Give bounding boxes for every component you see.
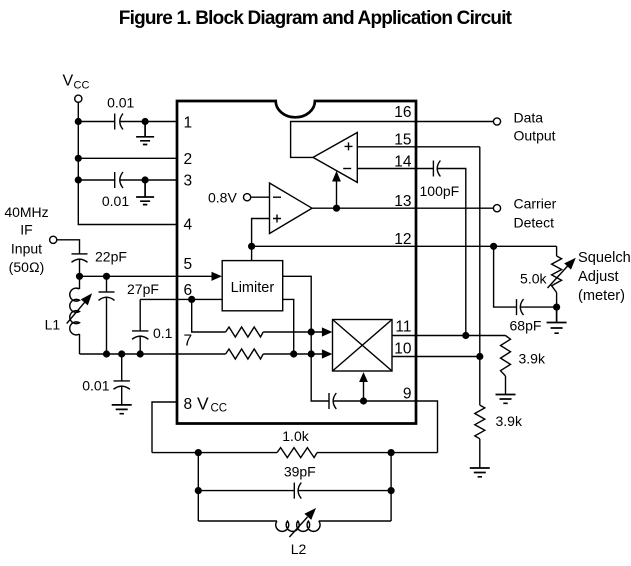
junction quad arrow	[360, 397, 367, 404]
ground G6	[470, 468, 490, 477]
label Data Output	[514, 110, 556, 144]
svg-text:L1: L1	[45, 317, 61, 333]
svg-text:Detect: Detect	[514, 214, 555, 230]
wire pin 7 row	[80, 353, 226, 355]
svg-text:40MHz: 40MHz	[4, 204, 48, 220]
svg-text:3.9k: 3.9k	[496, 413, 523, 429]
capacitor C8 quad	[329, 393, 336, 409]
label Carrier Detect	[514, 195, 557, 230]
svg-text:100pF: 100pF	[420, 183, 460, 199]
svg-text:3.9k: 3.9k	[519, 350, 546, 366]
junction 27pF/pin7	[103, 350, 110, 357]
junction quad column/R2	[308, 350, 315, 357]
svg-text:V: V	[197, 394, 209, 414]
junction 0.1/pin7	[137, 350, 144, 357]
wire 22pF to pin5 node	[79, 259, 81, 276]
wire pin 8	[152, 402, 177, 453]
wire 39pF row	[198, 490, 391, 492]
arrow U3 to U2	[332, 171, 341, 208]
svg-text:2: 2	[184, 151, 193, 168]
wire quad cap to pin 9	[333, 401, 437, 453]
capacitor C4 27pF	[99, 276, 115, 354]
junction 0.01/pin7	[118, 350, 125, 357]
resistor R5 3.9k	[501, 336, 511, 395]
junction 100pF/pin11	[462, 332, 469, 339]
wire pin 12	[252, 245, 557, 247]
wire tank left vertical	[197, 453, 199, 521]
wire limiter out1	[283, 276, 329, 401]
svg-text:L2: L2	[291, 541, 307, 557]
svg-text:27pF: 27pF	[127, 281, 159, 297]
wire limiter out2	[283, 299, 294, 354]
junction VCC/pin1	[75, 118, 82, 125]
svg-text:Figure 1. Block Diagram and Ap: Figure 1. Block Diagram and Application …	[119, 8, 513, 29]
svg-text:V: V	[63, 72, 74, 89]
ground G2	[136, 180, 154, 205]
inductor L1	[67, 276, 92, 354]
wire pin 6	[140, 298, 222, 300]
svg-text:7: 7	[184, 333, 193, 350]
svg-text:(meter): (meter)	[578, 288, 625, 304]
junction pot bottom	[553, 304, 560, 311]
capacitor C9 39pF	[294, 483, 301, 499]
node Data Output terminal	[493, 118, 500, 125]
wire pin 10	[392, 356, 480, 358]
resistor R3 1.0k	[277, 448, 317, 458]
inductor L2	[198, 508, 391, 537]
capacitor C3 22pF	[72, 254, 88, 262]
svg-text:1: 1	[184, 115, 193, 132]
svg-text:9: 9	[403, 386, 412, 403]
ground G1	[136, 122, 154, 145]
junction tank left	[195, 449, 202, 456]
junction pin1/gnd	[142, 118, 149, 125]
wire pin 11	[392, 335, 506, 337]
junction 39pF right	[388, 487, 395, 494]
junction pin10/pin15 column	[476, 353, 483, 360]
label pin8 VCC	[197, 394, 227, 415]
svg-text:16: 16	[394, 104, 411, 121]
svg-text:11: 11	[395, 319, 411, 336]
wire pin 14	[357, 168, 433, 170]
svg-text:5.0k: 5.0k	[520, 271, 547, 287]
junction pin5/27pF	[103, 273, 110, 280]
node IF input label	[4, 204, 48, 275]
wire input to 22pF	[57, 240, 80, 254]
wire pin 2	[78, 157, 177, 159]
svg-text:14: 14	[394, 153, 412, 170]
junction VCC/pin2	[75, 155, 82, 162]
capacitor C2 0.01	[115, 172, 123, 188]
wire bottom tank row	[152, 452, 438, 454]
resistor R6 3.9k	[475, 405, 485, 468]
svg-text:(50Ω): (50Ω)	[9, 259, 45, 275]
resistor R2	[226, 349, 264, 359]
junction tank right	[388, 449, 395, 456]
svg-text:CC: CC	[211, 403, 228, 415]
junction 39pF left	[195, 487, 202, 494]
wire U3 output to pin 13	[312, 207, 493, 209]
block limiter	[222, 261, 283, 311]
svg-text:5: 5	[184, 256, 193, 273]
svg-text:Adjust: Adjust	[578, 269, 619, 285]
resistor R1	[226, 327, 264, 337]
ground G5	[496, 395, 516, 404]
wire R2 to mixer	[263, 353, 322, 355]
wire U3 plus input to pin 12 and limiter	[252, 219, 270, 261]
wire pin15 column	[479, 147, 481, 405]
svg-text:Squelch: Squelch	[578, 250, 631, 266]
junction R1/limiter out1	[308, 328, 315, 335]
ground G3	[112, 405, 132, 414]
svg-text:39pF: 39pF	[284, 463, 316, 479]
junction pin6	[188, 296, 195, 303]
svg-text:Limiter: Limiter	[231, 280, 275, 296]
arrow into mixer bottom	[359, 372, 368, 401]
capacitor C1 0.01	[115, 114, 123, 130]
arrow into mixer row2	[322, 349, 332, 358]
node VCC terminal	[63, 72, 90, 102]
svg-text:4: 4	[184, 217, 193, 234]
svg-text:68pF: 68pF	[510, 318, 542, 334]
wire pin 15	[357, 146, 480, 148]
svg-text:10: 10	[394, 341, 412, 358]
svg-text:0.01: 0.01	[107, 94, 134, 110]
wire pin6 branch down to R1 row	[192, 299, 226, 332]
wire 0.8V to comparator	[251, 196, 270, 198]
svg-text:Output: Output	[514, 128, 556, 144]
svg-text:CC: CC	[74, 79, 90, 91]
arrow into limiter pin5	[212, 272, 222, 281]
wire pin 1	[78, 121, 177, 123]
capacitor C10 68pF	[517, 299, 557, 315]
capacitor C6 0.01	[114, 354, 130, 405]
label Squelch Adjust	[578, 250, 631, 304]
svg-text:0.01: 0.01	[82, 377, 109, 393]
svg-text:0.8V: 0.8V	[208, 190, 237, 206]
potentiometer R4 5.0k	[548, 246, 576, 307]
junction U3 out arrow	[333, 205, 340, 212]
junction pin3/gnd	[142, 176, 149, 183]
svg-text:3: 3	[184, 173, 193, 190]
capacitor C7 100pF	[433, 161, 465, 336]
wire tank right vertical	[390, 453, 392, 521]
junction pin12/68pF branch	[490, 243, 497, 250]
svg-text:0.01: 0.01	[102, 193, 129, 209]
svg-text:22pF: 22pF	[95, 249, 127, 265]
node IF input terminal	[50, 236, 57, 243]
block mixer quadrature detector	[333, 320, 393, 372]
node 0.8V terminal	[244, 194, 251, 201]
svg-text:0.1: 0.1	[153, 325, 173, 341]
svg-text:Input: Input	[11, 241, 42, 257]
junction pin5/L1	[76, 273, 83, 280]
wire 68pF branch	[494, 246, 517, 307]
svg-text:Data: Data	[514, 110, 544, 126]
node Carrier Detect terminal	[493, 205, 500, 212]
IC U1 package outline with pin-1 notch	[177, 101, 416, 424]
wire pin 5	[80, 275, 213, 277]
op-amp U2 data comparator	[313, 133, 357, 183]
ground G4	[547, 307, 567, 333]
svg-text:IF: IF	[20, 222, 32, 238]
arrow into mixer row1	[322, 327, 332, 336]
junction pin12/limiter	[248, 243, 255, 250]
wire U2 feedback to pin 16 row	[291, 122, 494, 158]
junction VCC/pin3	[75, 176, 82, 183]
svg-text:12: 12	[394, 231, 411, 248]
capacitor C5 0.1	[132, 299, 148, 354]
svg-text:1.0k: 1.0k	[282, 428, 309, 444]
wire R1 to mixer	[263, 331, 322, 333]
op-amp U3 carrier detect comparator	[270, 183, 313, 234]
wire VCC rail to pin 4	[78, 102, 177, 224]
svg-text:8: 8	[184, 396, 193, 413]
junction limiter out2/R2	[290, 350, 297, 357]
wire pin 3	[78, 179, 177, 181]
svg-text:Carrier: Carrier	[514, 195, 557, 211]
svg-text:13: 13	[394, 193, 411, 210]
